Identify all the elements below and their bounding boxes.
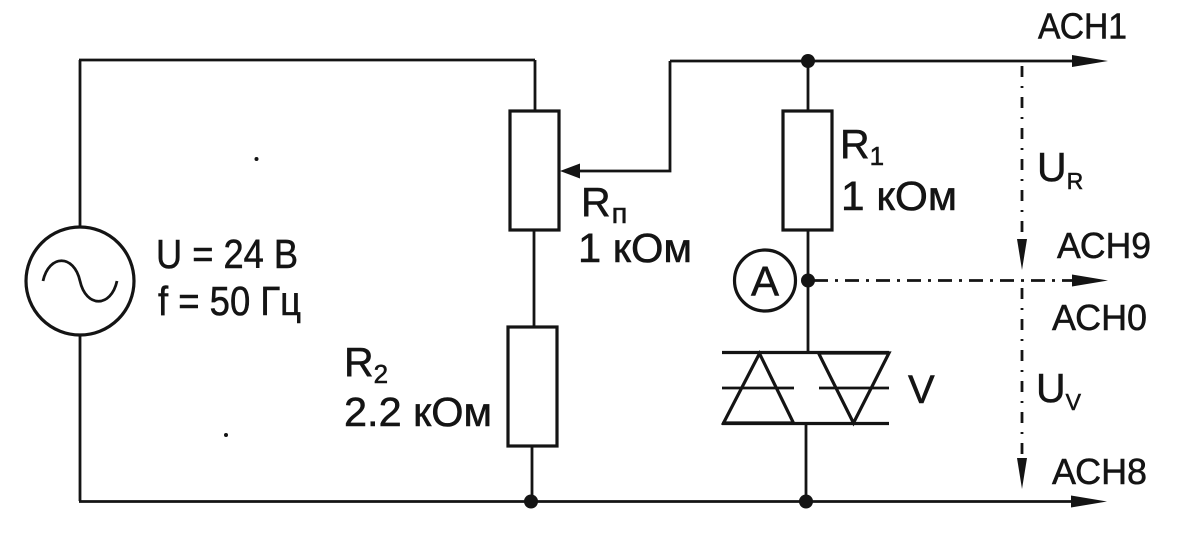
svg-text:f = 50 Гц: f = 50 Гц <box>158 278 301 324</box>
wire R1 to diac <box>807 230 810 353</box>
svg-text:АСН9: АСН9 <box>1057 225 1151 266</box>
svg-text:2.2 кОм: 2.2 кОм <box>344 389 492 435</box>
wire junction to R1 <box>807 61 810 111</box>
wire top right horizontal to АСН1 <box>670 60 1074 63</box>
node junction diac bottom <box>799 495 813 509</box>
svg-text:1 кОм: 1 кОм <box>578 225 692 271</box>
svg-text:АСН8: АСН8 <box>1052 451 1147 492</box>
svg-text:V: V <box>908 368 935 412</box>
svg-text:U = 24 В: U = 24 В <box>156 231 298 277</box>
svg-text:АСН0: АСН0 <box>1052 297 1147 338</box>
ammeter A <box>735 250 796 311</box>
diac V <box>722 353 889 424</box>
arrow АСН1 end <box>1072 55 1108 67</box>
potentiometer Rп <box>510 111 559 230</box>
wire dash-dot to АСН9/АСН0 <box>814 279 1074 282</box>
node junction top (R1 tap) <box>801 54 815 68</box>
arrow АСН8 end <box>1071 496 1107 508</box>
wire source top vertical <box>79 60 82 227</box>
wire diac to bottom rail <box>805 424 808 501</box>
svg-text:UR: UR <box>1037 144 1083 194</box>
resistor R1 <box>783 111 832 230</box>
scan speckle <box>255 157 259 161</box>
wiper arrow <box>560 61 670 179</box>
wire source bottom vertical <box>79 335 82 501</box>
svg-text:Rп: Rп <box>581 179 627 230</box>
node junction ammeter <box>801 274 815 288</box>
node junction R2 bottom <box>524 495 538 509</box>
measurement U_R dash-dot vertical <box>1017 66 1027 270</box>
measurement U_V dash-dot vertical <box>1017 288 1027 489</box>
resistor R2 <box>508 327 557 446</box>
svg-text:UV: UV <box>1036 365 1082 415</box>
AC source G1 <box>26 227 134 335</box>
wire potentiometer to R2 <box>533 230 536 327</box>
wire down to potentiometer <box>534 60 537 111</box>
svg-text:АСН1: АСН1 <box>1038 6 1127 47</box>
scan speckle <box>224 433 228 437</box>
wire top left horizontal <box>79 59 535 62</box>
wire R2 to bottom rail <box>531 446 534 502</box>
svg-text:R2: R2 <box>344 339 388 389</box>
svg-text:1 кОм: 1 кОм <box>841 173 957 219</box>
arrow АСН9/АСН0 end <box>1072 275 1108 287</box>
svg-text:R1: R1 <box>840 121 884 171</box>
svg-text:А: А <box>751 258 779 305</box>
wire bottom rail <box>79 500 1074 503</box>
